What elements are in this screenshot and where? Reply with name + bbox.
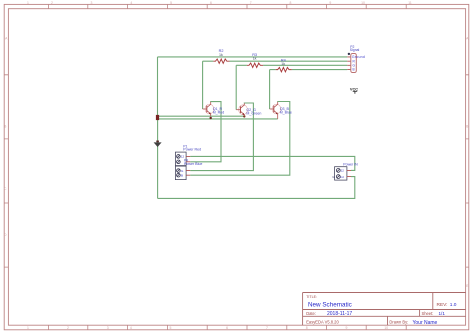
transistor Q3 <box>270 102 292 119</box>
svg-text:Date:: Date: <box>306 311 316 316</box>
ground symbol <box>154 141 162 148</box>
svg-text:6: 6 <box>210 1 212 5</box>
svg-text:2: 2 <box>67 326 69 330</box>
svg-text:New Schematic: New Schematic <box>308 302 352 309</box>
wire: Q1 collector loop to P1 pin2 <box>190 102 221 162</box>
connector P2 Signal <box>347 45 365 73</box>
wire: emitter bus B <box>158 118 278 120</box>
frame numbers <box>27 1 412 330</box>
wire: row2 R net <box>203 60 348 62</box>
transistor Q1 <box>203 102 225 116</box>
wire: P3 pin1 to P1 pin1 12V <box>190 156 355 170</box>
svg-text:M_Green: M_Green <box>246 111 261 115</box>
svg-text:10: 10 <box>361 1 365 5</box>
svg-text:1k: 1k <box>253 57 257 61</box>
svg-text:5: 5 <box>170 1 172 5</box>
svg-text:1k: 1k <box>219 53 223 57</box>
wire: row4 B net <box>270 69 348 71</box>
svg-text:VCC: VCC <box>350 86 358 91</box>
junction Q1 emitter <box>210 117 212 119</box>
svg-text:12: 12 <box>341 169 345 173</box>
svg-text:1/1: 1/1 <box>439 311 446 316</box>
wire: row3 G net <box>236 64 347 66</box>
connector P4 Power Blue (lower half) <box>175 159 202 180</box>
svg-text:Signal: Signal <box>350 48 360 52</box>
wire: Q1 base vertical <box>202 61 204 109</box>
wire: Q2 collector loop to P1 pin3 <box>190 103 253 171</box>
svg-text:1.0: 1.0 <box>450 302 457 308</box>
svg-text:Your Name: Your Name <box>413 320 438 326</box>
svg-text:Sheet:: Sheet: <box>422 311 434 316</box>
svg-text:11: 11 <box>408 1 412 5</box>
power flag VCC <box>350 86 358 94</box>
svg-text:7: 7 <box>266 326 268 330</box>
svg-text:4: 4 <box>130 1 132 5</box>
svg-text:M_Blue: M_Blue <box>280 111 292 115</box>
svg-text:M_Red: M_Red <box>213 111 225 115</box>
resistor R3 <box>247 63 263 67</box>
svg-text:6: 6 <box>226 326 228 330</box>
resistor R2 <box>213 59 229 63</box>
svg-text:2: 2 <box>51 1 53 5</box>
transistor Q2 <box>236 103 261 116</box>
svg-text:7: 7 <box>250 1 252 5</box>
frame letters <box>4 37 469 288</box>
svg-text:8: 8 <box>306 326 308 330</box>
svg-text:4: 4 <box>130 326 132 330</box>
svg-text:Drawn By:: Drawn By: <box>389 320 408 325</box>
wire: bottom ground rail to P3 pin2 <box>158 177 355 199</box>
svg-text:1: 1 <box>27 326 29 330</box>
svg-text:5: 5 <box>170 326 172 330</box>
svg-text:nd: nd <box>340 175 344 179</box>
svg-text:TITLE:: TITLE: <box>306 295 317 299</box>
svg-text:B: B <box>353 68 355 72</box>
junction Q2 emitter <box>243 115 245 117</box>
connector P3 Power IN <box>332 163 358 180</box>
svg-text:3: 3 <box>107 326 109 330</box>
svg-text:1k: 1k <box>281 62 285 66</box>
wire: emitter bus A <box>158 115 245 117</box>
svg-text:EasyEDA V5.8.20: EasyEDA V5.8.20 <box>306 320 339 325</box>
wire: ground vertical to bottom rail <box>157 119 159 198</box>
connector P1 Power Red (upper half) <box>175 145 201 166</box>
svg-text:10: 10 <box>384 326 388 330</box>
svg-text:2018-11-17: 2018-11-17 <box>327 311 352 317</box>
svg-text:9: 9 <box>346 326 348 330</box>
svg-text:3: 3 <box>91 1 93 5</box>
title block <box>303 293 466 326</box>
wire: GND top row to P2 pin1 <box>158 56 348 58</box>
wire: Q3 collector loop to P1 pin4 <box>190 102 290 176</box>
svg-text:Power Blue: Power Blue <box>184 162 202 166</box>
svg-text:9: 9 <box>329 1 331 5</box>
resistor R4 <box>276 67 292 71</box>
svg-text:Power IN: Power IN <box>343 163 358 167</box>
svg-text:Power Red: Power Red <box>183 148 201 152</box>
junction left bus <box>156 115 159 120</box>
svg-text:8: 8 <box>290 1 292 5</box>
wire: Q2 base vertical <box>235 65 237 109</box>
wire: left vertical P2-ground down to bus <box>157 57 159 116</box>
svg-text:1: 1 <box>27 1 29 5</box>
wire: Q3 base vertical <box>269 70 271 109</box>
svg-text:REV:: REV: <box>437 302 448 308</box>
svg-text:B: B <box>181 173 183 177</box>
